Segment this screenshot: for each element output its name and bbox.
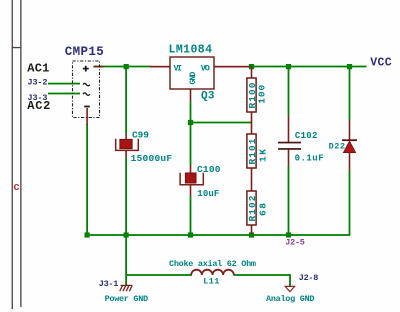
capacitor C99 bracket plate bbox=[116, 139, 139, 151]
pin C99 top bbox=[125, 134, 127, 140]
svg-text:C102: C102 bbox=[295, 131, 318, 141]
pin C100 bottom bbox=[190, 185, 192, 196]
pin C99 bottom bbox=[125, 151, 127, 158]
sheet border inner line bbox=[12, 0, 13, 309]
capacitor C100 bracket plate bbox=[180, 173, 203, 185]
svg-text:VI: VI bbox=[174, 63, 183, 73]
junction at D22 top bbox=[347, 64, 352, 69]
regulator U Q3 LM1084 body bbox=[170, 57, 214, 89]
diode D22 triangle bbox=[343, 141, 355, 153]
inductor L11 choke arcs bbox=[191, 270, 234, 275]
pin C100 top bbox=[190, 165, 192, 173]
capacitor C102 top plate bbox=[278, 142, 301, 144]
component CMP15 dashed outline bbox=[73, 61, 100, 118]
CMP15 ac symbol 2 bbox=[83, 93, 90, 96]
pin C102 bottom bbox=[288, 149, 290, 167]
pin LM1084 GND bbox=[190, 89, 192, 101]
CMP15 plus symbol bbox=[83, 66, 89, 72]
svg-text:D22: D22 bbox=[329, 141, 346, 151]
wire: top net from CMP15 plus pin to LM1084 VI bbox=[94, 66, 151, 68]
capacitor C100 body bbox=[185, 173, 196, 183]
power gnd hatched symbol bbox=[120, 285, 132, 291]
svg-text:Analog GND: Analog GND bbox=[266, 294, 315, 304]
wire: choke row right segment bbox=[234, 274, 291, 276]
resistor R100 body bbox=[247, 78, 256, 112]
diode D22 cathode bar bbox=[342, 139, 357, 141]
svg-text:C100: C100 bbox=[197, 164, 221, 175]
svg-text:LM1084: LM1084 bbox=[169, 44, 213, 57]
pin D22 anode bbox=[349, 153, 351, 171]
wire: LM1084 GND column upper bbox=[190, 101, 192, 165]
svg-text:VO: VO bbox=[201, 63, 210, 73]
wire: choke row left segment bbox=[126, 274, 192, 276]
junction bottom rail C99 bbox=[124, 232, 129, 237]
svg-text:AC2: AC2 bbox=[27, 99, 50, 113]
sheet border tick bbox=[12, 47, 22, 48]
wire: D22 column lower bbox=[349, 170, 351, 235]
pin R100 bottom to R101 top bbox=[251, 112, 253, 134]
svg-text:1K: 1K bbox=[257, 149, 268, 162]
wire: C102 column lower bbox=[288, 166, 290, 235]
capacitor C102 bottom plate bbox=[278, 148, 301, 150]
wire: bottom ground rail bbox=[86, 234, 350, 236]
sheet border outer line bbox=[20, 0, 21, 307]
pin R101 bottom to R102 top bbox=[251, 168, 253, 191]
svg-text:c: c bbox=[13, 182, 20, 194]
svg-text:R102: R102 bbox=[247, 195, 258, 221]
svg-text:VCC: VCC bbox=[370, 57, 392, 70]
junction bottom rail left end bbox=[85, 232, 90, 237]
wire: J3-3 lead bbox=[48, 93, 80, 95]
svg-text:J3-1: J3-1 bbox=[99, 279, 119, 289]
svg-text:Q3: Q3 bbox=[201, 90, 215, 102]
CMP15 minus symbol bbox=[84, 106, 90, 108]
svg-text:AC1: AC1 bbox=[27, 61, 49, 75]
pin stub CMP15 minus bbox=[86, 108, 88, 125]
pin stub CMP15 plus bbox=[94, 66, 104, 68]
wire: J3-2 lead bbox=[48, 83, 80, 85]
svg-text:0.1uF: 0.1uF bbox=[295, 154, 324, 164]
svg-text:J3-2: J3-2 bbox=[28, 77, 48, 87]
analog gnd open arrow bbox=[285, 286, 294, 291]
junction bottom rail C102 bbox=[286, 232, 291, 237]
junction at VO node bbox=[249, 64, 254, 69]
CMP15 ac symbol 1 bbox=[83, 83, 90, 86]
wire: ADJ mid wire bbox=[190, 122, 252, 124]
wire: top net from VO junction to VCC bbox=[250, 66, 367, 68]
svg-text:L11: L11 bbox=[203, 276, 219, 286]
wire: C99 column upper bbox=[125, 67, 127, 134]
resistor R102 body bbox=[247, 191, 256, 225]
junction bottom rail R102 bbox=[249, 232, 254, 237]
pin C102 top bbox=[288, 116, 290, 143]
junction at C102 top bbox=[286, 64, 291, 69]
pin LM1084 VO bbox=[214, 66, 250, 68]
junction at plus node bbox=[124, 64, 129, 69]
svg-text:CMP15: CMP15 bbox=[65, 45, 104, 59]
capacitor C99 body bbox=[120, 139, 132, 148]
junction at ADJ node bbox=[188, 120, 193, 125]
resistor R101 body bbox=[247, 134, 256, 168]
wire: LM1084 GND column lower bbox=[190, 196, 192, 235]
svg-text:C99: C99 bbox=[132, 130, 149, 141]
svg-text:GND: GND bbox=[189, 72, 198, 85]
pin R102 bottom bbox=[251, 225, 253, 234]
svg-text:Choke axial 62 Ohm: Choke axial 62 Ohm bbox=[169, 259, 256, 269]
wire: C102 column upper bbox=[288, 67, 290, 116]
svg-text:68: 68 bbox=[257, 203, 268, 216]
svg-text:15000uF: 15000uF bbox=[131, 153, 173, 164]
wire: CMP15 minus column down to bottom rail bbox=[86, 124, 88, 235]
wire: D22 column upper bbox=[349, 67, 351, 120]
pin R100 top bbox=[251, 67, 253, 78]
pin LM1084 VI bbox=[150, 66, 170, 68]
wire: drop to analog gnd arrow bbox=[289, 274, 291, 287]
svg-text:Power GND: Power GND bbox=[105, 294, 149, 304]
pin D22 cathode bbox=[349, 120, 351, 140]
svg-text:R101: R101 bbox=[247, 138, 258, 164]
wire: C99 column lower down to power gnd bbox=[125, 158, 127, 285]
junction bottom rail C100 bbox=[188, 232, 193, 237]
svg-text:10uF: 10uF bbox=[197, 189, 219, 199]
svg-text:J2-5: J2-5 bbox=[285, 237, 305, 247]
svg-text:J2-8: J2-8 bbox=[299, 273, 319, 283]
svg-text:100: 100 bbox=[256, 85, 267, 104]
